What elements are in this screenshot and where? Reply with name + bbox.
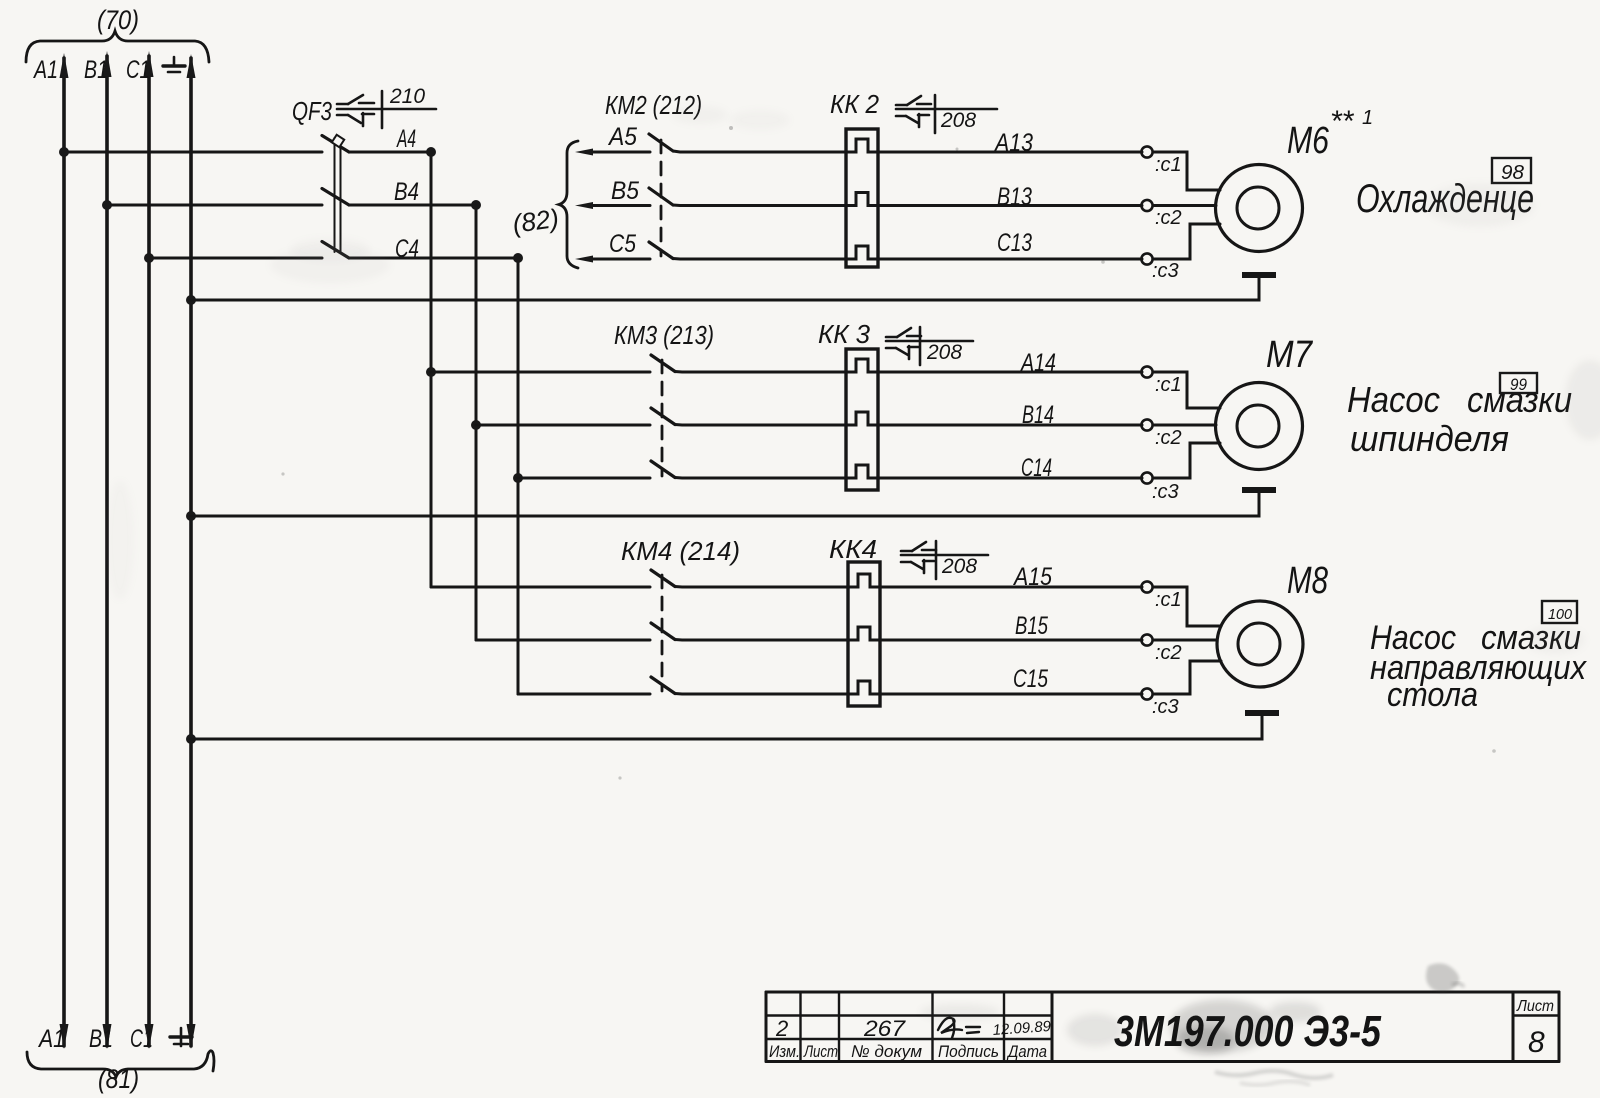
svg-text:Лист: Лист bbox=[1516, 998, 1554, 1015]
svg-text:C1: C1 bbox=[126, 56, 150, 84]
svg-text:208: 208 bbox=[926, 341, 962, 364]
svg-text:B5: B5 bbox=[611, 177, 639, 205]
svg-text:C4: C4 bbox=[395, 235, 419, 263]
svg-text:210: 210 bbox=[389, 85, 425, 108]
svg-text:М6: М6 bbox=[1287, 120, 1330, 162]
svg-text:КМ3 (213): КМ3 (213) bbox=[614, 320, 714, 350]
svg-text::с2: :с2 bbox=[1155, 642, 1182, 664]
svg-text:A13: A13 bbox=[993, 129, 1033, 157]
svg-text:1: 1 bbox=[1362, 107, 1373, 129]
svg-text::с3: :с3 bbox=[1152, 481, 1179, 503]
svg-text:C14: C14 bbox=[1021, 454, 1052, 482]
svg-text:B13: B13 bbox=[997, 183, 1032, 211]
svg-text:C1: C1 bbox=[130, 1025, 153, 1053]
svg-text:B14: B14 bbox=[1022, 401, 1054, 429]
svg-text::с2: :с2 bbox=[1155, 427, 1182, 449]
svg-text:267: 267 bbox=[863, 1016, 906, 1041]
svg-text:Подпись: Подпись bbox=[938, 1042, 999, 1061]
svg-text:C5: C5 bbox=[609, 230, 636, 258]
svg-text:КК 3: КК 3 bbox=[818, 319, 871, 349]
svg-text:C15: C15 bbox=[1013, 665, 1048, 693]
svg-text::с2: :с2 bbox=[1155, 207, 1182, 229]
svg-text:Изм.: Изм. bbox=[769, 1042, 800, 1061]
svg-text:B1: B1 bbox=[84, 56, 108, 84]
svg-text:208: 208 bbox=[941, 555, 977, 578]
svg-text::с3: :с3 bbox=[1152, 696, 1179, 718]
svg-text:208: 208 bbox=[940, 109, 976, 132]
svg-text:**: ** bbox=[1330, 105, 1355, 138]
svg-text:A5: A5 bbox=[607, 123, 637, 151]
svg-text:A14: A14 bbox=[1019, 349, 1056, 377]
svg-text:Лист: Лист bbox=[803, 1042, 838, 1061]
svg-text:Насос: Насос bbox=[1347, 379, 1440, 420]
svg-text:100: 100 bbox=[1548, 606, 1573, 623]
svg-text:2: 2 bbox=[775, 1016, 788, 1041]
svg-text:КК4: КК4 bbox=[829, 534, 877, 564]
svg-text::с1: :с1 bbox=[1155, 374, 1182, 396]
svg-text:99: 99 bbox=[1510, 375, 1527, 394]
svg-text:A4: A4 bbox=[396, 125, 416, 153]
svg-text:C13: C13 bbox=[997, 229, 1032, 257]
svg-text:М8: М8 bbox=[1287, 560, 1328, 602]
svg-text:A1: A1 bbox=[32, 56, 58, 84]
svg-text:КМ4 (214): КМ4 (214) bbox=[621, 536, 740, 566]
svg-text:(70): (70) bbox=[97, 5, 139, 35]
svg-text:B15: B15 bbox=[1015, 612, 1048, 640]
svg-text::с1: :с1 bbox=[1155, 154, 1182, 176]
svg-text:(82): (82) bbox=[511, 203, 561, 239]
svg-text:шпинделя: шпинделя bbox=[1350, 418, 1509, 459]
svg-text:QF3: QF3 bbox=[292, 96, 332, 126]
svg-text:98: 98 bbox=[1501, 162, 1524, 184]
svg-text:Дата: Дата bbox=[1006, 1042, 1047, 1061]
svg-text::с3: :с3 bbox=[1152, 260, 1179, 282]
svg-text:A15: A15 bbox=[1012, 563, 1052, 591]
svg-text:8: 8 bbox=[1528, 1026, 1545, 1059]
svg-text::с1: :с1 bbox=[1155, 589, 1182, 611]
svg-text:М7: М7 bbox=[1266, 334, 1314, 376]
svg-text:КК 2: КК 2 bbox=[830, 89, 879, 119]
svg-text:№ докум: № докум bbox=[851, 1042, 922, 1061]
svg-text:стола: стола bbox=[1387, 676, 1478, 714]
svg-text:B1: B1 bbox=[89, 1025, 113, 1053]
svg-text:B4: B4 bbox=[394, 178, 419, 206]
svg-text:(81): (81) bbox=[98, 1064, 139, 1094]
svg-text:A1: A1 bbox=[37, 1025, 65, 1053]
